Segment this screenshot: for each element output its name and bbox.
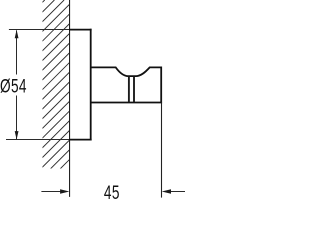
arrow left toward hook front (45) [162,189,171,193]
rosette plate front face [90,29,92,141]
hook body outline [91,67,162,102]
hook waist silhouette line right [133,77,135,102]
extension line top (Ø54) [9,29,70,31]
rosette plate bottom edge [69,139,92,141]
dimension line 45 right segment [170,191,185,193]
extension line hook front (45) [161,103,163,198]
dimension line Ø54 vertical [16,30,18,139]
arrow down Ø54 [15,131,19,140]
svg-text:Ø54: Ø54 [0,75,27,97]
arrow right toward wall (45) [60,189,69,193]
rosette plate top edge [69,29,92,31]
wall hatching [0,0,239,200]
extension line bottom (Ø54) [6,139,70,141]
dimension line 45 left segment [41,191,60,193]
hook waist silhouette line left [128,77,130,102]
arrow up Ø54 [15,30,19,39]
svg-text:45: 45 [104,182,120,200]
wall face line [69,0,71,197]
